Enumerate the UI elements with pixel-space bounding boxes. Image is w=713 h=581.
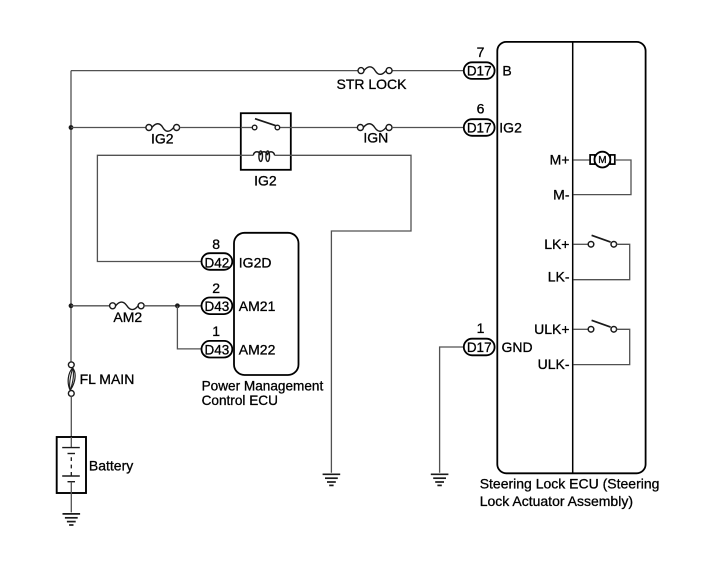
wire: IGN fuse to D17 pin6 — [392, 127, 464, 129]
svg-text:Lock Actuator Assembly): Lock Actuator Assembly) — [480, 493, 633, 509]
pin label IG2 (pin) — [499, 119, 522, 135]
wire: left vertical bus from top corner to FL MAIN — [70, 71, 72, 362]
pin label GND — [502, 339, 533, 355]
svg-text:IG2: IG2 — [254, 172, 277, 188]
svg-text:Control ECU: Control ECU — [202, 393, 278, 408]
svg-text:D17: D17 — [467, 120, 492, 135]
svg-text:M+: M+ — [550, 152, 570, 168]
component label Power Management Control ECU — [202, 378, 324, 408]
pin label LK+ — [544, 236, 569, 252]
fuse AM2 — [110, 302, 145, 310]
pin number 1 — [477, 320, 485, 336]
wire: FL MAIN to battery — [70, 396, 72, 437]
switch LK — [588, 235, 616, 247]
wire: relay coil row stubs inside box — [241, 154, 291, 156]
svg-text:8: 8 — [212, 236, 220, 252]
svg-text:B: B — [502, 62, 511, 78]
svg-text:AM2: AM2 — [113, 309, 142, 325]
value label STR LOCK — [336, 76, 407, 92]
ground (battery) — [63, 514, 81, 525]
svg-text:LK+: LK+ — [544, 236, 569, 252]
wire: IG2 row from bus to IG2 fuse — [71, 127, 146, 129]
component label IG2 (relay) — [254, 172, 277, 188]
component label Battery — [89, 458, 133, 474]
svg-text:D43: D43 — [205, 299, 230, 314]
wire: AM2 fuse to D43 pin2 — [144, 305, 201, 307]
connector D17 pin 1 (GND) — [464, 339, 495, 356]
svg-text:FL MAIN: FL MAIN — [80, 371, 135, 387]
svg-text:D17: D17 — [467, 340, 492, 355]
wire: IG2 fuse to relay box — [180, 127, 241, 129]
node: bus / AM2 row junction — [69, 303, 74, 308]
svg-text:AM22: AM22 — [239, 341, 276, 357]
relay IG2 switch blade — [255, 119, 276, 126]
pin number 7 — [477, 44, 485, 60]
svg-text:AM21: AM21 — [239, 298, 276, 314]
ECU internal divider line — [572, 42, 574, 473]
value label AM2 — [113, 309, 142, 325]
svg-text:M-: M- — [553, 186, 570, 202]
fuse IGN — [357, 124, 392, 132]
pin label M- — [553, 186, 570, 202]
pin label ULK- — [538, 356, 570, 372]
pin number 2 — [212, 280, 220, 296]
fusible link FL MAIN — [68, 362, 75, 396]
value label FL MAIN — [80, 371, 135, 387]
wire: LK switch to LK- row — [573, 244, 629, 279]
value label IGN — [363, 130, 388, 146]
svg-text:D42: D42 — [205, 255, 230, 270]
svg-text:Power Management: Power Management — [202, 378, 324, 393]
svg-text:D17: D17 — [467, 63, 492, 78]
pin number 1 — [212, 323, 220, 339]
ground (relay coil) — [323, 474, 341, 485]
Steering Lock ECU box — [497, 42, 645, 473]
svg-text:GND: GND — [502, 339, 533, 355]
pin label ULK+ — [534, 321, 569, 337]
pin label M+ — [550, 152, 570, 168]
relay IG2 coil — [253, 151, 274, 161]
wire: M+ row to motor — [573, 159, 590, 161]
relay IG2 switch contacts — [252, 125, 279, 130]
motor M — [590, 152, 615, 168]
wire: motor to M- row — [573, 160, 631, 195]
svg-text:6: 6 — [477, 101, 485, 117]
wire: LK+ row to switch — [573, 243, 588, 245]
pin label AM21 — [239, 298, 276, 314]
wire: battery bus top horizontal to STR LOCK fuse — [71, 70, 358, 72]
wire: ULK switch to ULK- row — [573, 329, 629, 364]
battery — [57, 437, 86, 493]
svg-text:IG2: IG2 — [499, 119, 522, 135]
svg-text:LK-: LK- — [548, 269, 570, 285]
wire: ULK+ row to switch — [573, 328, 588, 330]
wire: battery to ground — [70, 493, 72, 512]
svg-text:Steering Lock ECU (Steering: Steering Lock ECU (Steering — [480, 475, 660, 491]
wire: relay switch row stubs — [241, 127, 291, 129]
wire: STR LOCK fuse to D17 pin7 — [392, 70, 464, 72]
fuse IG2 — [146, 124, 180, 132]
pin label IG2D — [239, 254, 272, 270]
wire: relay coil right lead to ground — [291, 155, 411, 473]
wire: relay switch to IGN fuse — [291, 127, 358, 129]
wire: AM2 row from bus to fuse — [71, 305, 110, 307]
pin number 8 — [212, 236, 220, 252]
svg-text:STR LOCK: STR LOCK — [336, 76, 407, 92]
switch ULK — [588, 320, 616, 332]
svg-text:IGN: IGN — [363, 130, 388, 146]
fuse STR LOCK — [358, 67, 392, 75]
wire: relay coil left lead to IG2D row — [97, 155, 240, 261]
node: AM21/AM22 branch junction — [175, 303, 180, 308]
value label IG2 (fuse) — [151, 131, 174, 147]
svg-text:M: M — [598, 155, 606, 166]
node: bus / IG2 row junction — [69, 125, 74, 130]
component label Steering Lock ECU (Steering Lock Actuator Assembly) — [480, 475, 660, 509]
connector D43 pin 2 (AM21) — [202, 298, 233, 315]
svg-text:IG2D: IG2D — [239, 254, 272, 270]
connector D17 pin 6 (IG2) — [464, 119, 495, 136]
ground (GND pin) — [431, 474, 449, 485]
svg-text:Battery: Battery — [89, 458, 133, 474]
pin label LK- — [548, 269, 570, 285]
connector D43 pin 1 (AM22) — [202, 341, 233, 358]
pin number 6 — [477, 101, 485, 117]
connector D42 pin 8 (IG2D) — [202, 253, 233, 270]
svg-text:ULK-: ULK- — [538, 356, 570, 372]
svg-text:1: 1 — [477, 320, 485, 336]
Power Management Control ECU box — [234, 233, 299, 375]
svg-text:7: 7 — [477, 44, 485, 60]
svg-text:2: 2 — [212, 280, 220, 296]
relay IG2 box — [241, 113, 291, 170]
wire: branch down to D43 pin1 (AM22) — [177, 306, 201, 349]
svg-text:IG2: IG2 — [151, 131, 174, 147]
pin label AM22 — [239, 341, 276, 357]
connector D17 pin 7 (B) — [464, 62, 495, 79]
wire: GND row to D17 pin 1 — [440, 347, 464, 473]
svg-text:ULK+: ULK+ — [534, 321, 569, 337]
svg-text:1: 1 — [212, 323, 220, 339]
svg-text:D43: D43 — [205, 342, 230, 357]
pin label B — [502, 62, 511, 78]
